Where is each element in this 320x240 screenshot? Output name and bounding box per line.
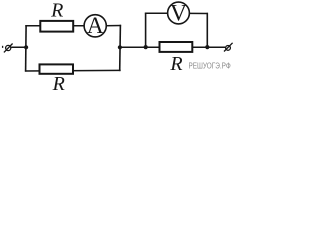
voltmeter V1 xyxy=(168,0,190,26)
resistor R2 (bottom left) xyxy=(40,64,74,73)
terminal T2 (right output clamp) xyxy=(224,43,233,52)
svg-text:R: R xyxy=(50,0,63,22)
node C (voltmeter left junction) xyxy=(144,45,148,49)
svg-text:R: R xyxy=(169,53,182,75)
wire voltmeter top left xyxy=(145,12,169,14)
ammeter A1 xyxy=(84,13,106,39)
wire middle (node B to terminal T2) xyxy=(119,46,225,48)
node D (voltmeter right junction) xyxy=(205,45,209,49)
node A (left junction) xyxy=(24,45,28,49)
resistor R1 (top left) xyxy=(40,21,73,32)
wire top branch left (node A to ammeter) xyxy=(25,25,85,27)
wire from T1 to node A xyxy=(11,46,27,48)
wire ammeter to right bus xyxy=(105,25,121,27)
wire left vertical bus xyxy=(25,25,28,72)
wire voltmeter right riser xyxy=(206,13,208,47)
svg-text:R: R xyxy=(52,73,65,93)
node B (right bus junction) xyxy=(118,45,122,49)
wire voltmeter left riser xyxy=(145,13,147,48)
svg-text:РЕШУОГЭ.РФ: РЕШУОГЭ.РФ xyxy=(189,61,231,70)
svg-text:V: V xyxy=(170,0,187,26)
svg-text:A: A xyxy=(87,13,104,39)
resistor R3 (right) xyxy=(160,42,193,52)
terminal T1 (left input clamp) xyxy=(3,44,13,53)
wire voltmeter top right xyxy=(189,12,209,14)
wire right vertical bus xyxy=(119,25,122,71)
wire bottom branch xyxy=(25,69,121,72)
